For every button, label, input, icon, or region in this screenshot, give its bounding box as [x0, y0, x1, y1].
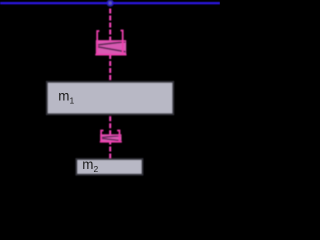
damper D1 fill [96, 40, 126, 55]
mass m2 box [76, 159, 142, 175]
wire rod m1-to-damper2 [109, 115, 111, 134]
node center dot [109, 1, 112, 4]
wire rod damper1-to-m1 [109, 55, 111, 81]
damper D2 spring zigzag [101, 136, 121, 141]
wire rod node-to-damper1 [109, 7, 111, 40]
wire rod damper2-to-m2 [109, 142, 111, 158]
damper D2 fill [100, 134, 121, 142]
mass m1 box [47, 82, 173, 114]
damper D1 piston line [96, 40, 126, 42]
damper D1 cylinder [95, 31, 126, 56]
node ceiling-anchor [107, 0, 114, 7]
damper D2 piston line [100, 134, 121, 136]
damper D1 spring zigzag [96, 42, 125, 52]
damper D2 cylinder [100, 131, 122, 143]
wire ceiling line [0, 2, 220, 4]
